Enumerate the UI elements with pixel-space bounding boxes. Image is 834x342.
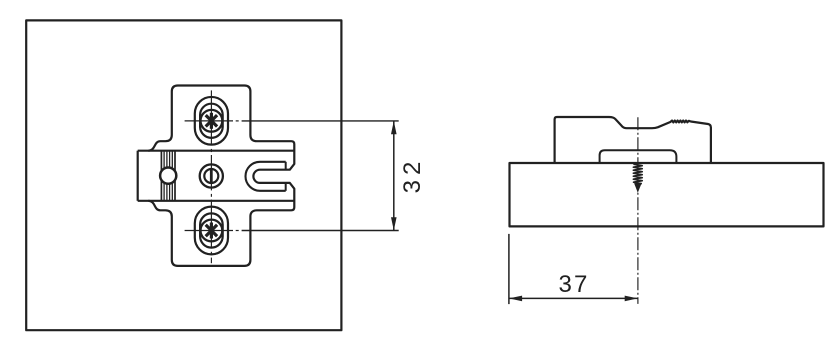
mounting panel (front view square) [26, 20, 341, 330]
plate side profile [555, 117, 711, 163]
arrow right [625, 296, 638, 302]
hatch thin lines [164, 151, 172, 201]
bottom screw head circle [201, 220, 223, 242]
wing left edge [137, 151, 139, 201]
top screw slot outer obround [195, 97, 228, 145]
mounting plate outline (cross shape) [148, 86, 294, 266]
hatch block right edge [174, 151, 176, 201]
screw threads [633, 164, 642, 184]
center hole inner circle [204, 169, 218, 183]
dimension line 32 [393, 121, 395, 230]
center hole slot bar [210, 169, 213, 183]
fork boss outer C [246, 162, 286, 191]
left extension line 37 [508, 234, 510, 304]
top screw pozidriv star [206, 113, 217, 129]
center hole outer circle [200, 164, 223, 187]
hatch block left edge [160, 151, 162, 201]
board (side view) [510, 163, 824, 226]
knob circle on hatch [160, 168, 176, 184]
svg-text:37: 37 [558, 271, 589, 298]
screw centerline [637, 117, 639, 304]
fork boss bottom closure [285, 183, 287, 191]
wing top edge line [138, 150, 295, 152]
bottom screw inner obround [200, 213, 223, 247]
fork boss top closure [285, 162, 287, 170]
bottom extension line [242, 230, 399, 232]
bottom screw slot outer obround [195, 207, 228, 255]
vertical centerline of plate [210, 90, 212, 263]
arrow up [391, 121, 397, 134]
wing bottom edge line [138, 200, 295, 202]
top screw inner obround [200, 104, 223, 138]
flange under plate [600, 150, 677, 163]
svg-text:32: 32 [399, 157, 426, 194]
arrow down [391, 217, 397, 230]
dimension line 37 [509, 297, 638, 299]
screw tip [634, 183, 642, 193]
top screw horizontal centerline [185, 120, 239, 122]
arrow left [509, 296, 522, 302]
bottom screw horizontal centerline [185, 230, 239, 232]
top extension line [242, 120, 399, 122]
top screw head circle [201, 110, 223, 132]
bottom screw pozidriv star [206, 223, 217, 239]
